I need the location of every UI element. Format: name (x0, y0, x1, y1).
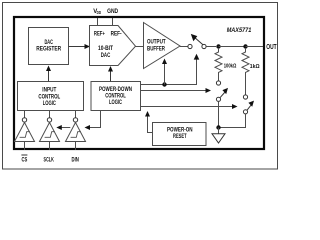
svg-text:CONTROL: CONTROL (38, 94, 60, 100)
resistor R2 1k (242, 48, 249, 95)
buffer B1 hysteresis symbol (20, 132, 30, 138)
switch S2 blade with arrow (220, 92, 226, 98)
chip boundary MAX5771 (14, 17, 264, 149)
svg-text:BUFFER: BUFFER (147, 46, 165, 53)
node junction at 1k resistor (243, 44, 247, 48)
buffer B3 hysteresis symbol (71, 132, 81, 138)
buffer B2 SCLK: wire to logic (49, 111, 51, 118)
svg-text:GND: GND (107, 8, 118, 15)
buffer B1 bubble (22, 118, 26, 122)
logic block: INPUT CONTROL LOGIC (18, 82, 84, 111)
svg-text:DD: DD (97, 10, 102, 15)
wire/arrow POWER-DOWN logic to 10-BIT DAC (110, 71, 112, 82)
wire 10-BIT DAC to output buffer (136, 46, 144, 48)
dac U2: 10-BIT DAC pentagon (90, 26, 136, 66)
wire/arrow POWER-ON RESET to control line (148, 116, 153, 133)
svg-text:OUTPUT: OUTPUT (147, 39, 166, 46)
switch S1 left contact (188, 44, 192, 48)
svg-text:MAX5771: MAX5771 (227, 28, 252, 34)
node junction at 100k resistor (216, 44, 220, 48)
svg-text:DAC: DAC (101, 52, 111, 59)
svg-text:REF-: REF- (111, 30, 122, 37)
buffer B3 triangle (66, 123, 86, 142)
wire/arrow INPUT CONTROL LOGIC to DAC REGISTER (48, 70, 50, 82)
resistor R1 100k (215, 48, 222, 81)
wire node to OUT pin (246, 46, 264, 48)
arrow into S1 blade (194, 54, 200, 60)
buffer B3 input wire (75, 142, 77, 151)
logic block: POWER-ON RESET (153, 123, 207, 146)
switch S3 blade with arrow (247, 105, 252, 111)
buffer B1 CS input: wire to logic (24, 111, 26, 118)
wire/arrow control to output buffer (164, 63, 166, 85)
buffer B3 bubble (73, 118, 77, 122)
svg-text:LOGIC: LOGIC (43, 101, 57, 107)
svg-text:CONTROL: CONTROL (105, 94, 126, 100)
svg-text:POWER-ON: POWER-ON (167, 128, 193, 134)
buffer B2 triangle (40, 123, 60, 142)
svg-text:LOGIC: LOGIC (109, 100, 122, 106)
wire VDD to DAC REF+ (97, 18, 99, 26)
buffer B2 input wire (49, 142, 51, 151)
svg-text:DIN: DIN (72, 156, 79, 163)
wire node to node (219, 46, 246, 48)
wire switch to OUT node (206, 46, 216, 48)
wire S3 bottom to ground junction (219, 114, 246, 128)
svg-text:REF+: REF+ (94, 30, 105, 37)
svg-text:POWER-DOWN: POWER-DOWN (99, 87, 132, 93)
switch S2 top contact (216, 81, 220, 85)
svg-text:1kΩ: 1kΩ (250, 64, 260, 70)
svg-text:CS: CS (22, 156, 28, 163)
outer figure frame (3, 3, 278, 170)
logic block: POWER-DOWN CONTROL LOGIC (91, 82, 141, 111)
buffer B1 input wire (24, 142, 26, 151)
buffer B3 DIN: wire to logic (75, 111, 77, 118)
svg-text:OUT: OUT (266, 42, 277, 51)
wire S2 bottom to ground junction (218, 101, 220, 127)
switch S1 blade with arrow (195, 38, 203, 45)
control wire power-down to input buffers (89, 111, 101, 128)
switch S3 bottom contact (243, 110, 247, 114)
node junction on control wire (162, 82, 166, 86)
control wire/arrow to S3 (141, 106, 234, 108)
svg-text:INPUT: INPUT (42, 88, 56, 94)
wire/arrow DAC REGISTER to 10-BIT DAC (69, 46, 86, 48)
node ground junction (216, 125, 220, 129)
svg-text:100kΩ: 100kΩ (224, 63, 237, 69)
wire GND to DAC REF- (112, 18, 114, 26)
svg-text:RESET: RESET (173, 134, 187, 140)
buffer B2 hysteresis symbol (45, 132, 55, 138)
wire junction to ground (218, 128, 220, 134)
wire/arrow into SCLK buffer (61, 127, 71, 129)
buffer B2 bubble (47, 118, 51, 122)
switch S3 top contact (243, 95, 247, 99)
svg-text:10-BIT: 10-BIT (98, 45, 113, 52)
ground symbol (212, 134, 225, 143)
switch S1 right contact (202, 44, 206, 48)
control wire to buffer and S1 (141, 58, 197, 85)
control wire/arrow to S2 (141, 90, 207, 92)
svg-text:REGISTER: REGISTER (36, 45, 61, 52)
svg-text:SCLK: SCLK (44, 156, 54, 163)
arrow into DIN buffer (85, 125, 91, 130)
buffer B1 triangle (15, 123, 35, 142)
op-amp U3: OUTPUT BUFFER (144, 23, 181, 69)
register U1: DAC REGISTER box (29, 28, 69, 65)
wire buffer output to switch contact (180, 46, 188, 48)
switch S2 bottom contact (216, 97, 220, 101)
